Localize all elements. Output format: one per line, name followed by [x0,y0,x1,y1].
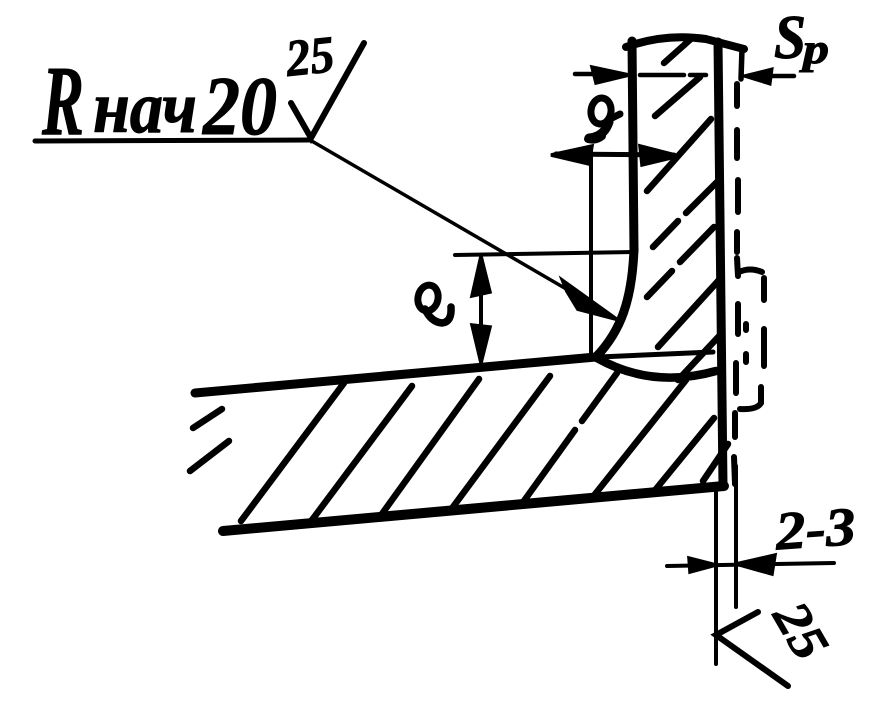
svg-text:25: 25 [282,26,337,88]
wire: fillet curve R [596,249,634,357]
wire: plate bottom edge [223,486,724,531]
wire: e dimension arrow [479,258,483,361]
wire: g dimension line [556,154,674,155]
svg-text:2-3: 2-3 [772,496,857,562]
wire: leader underline for R nach 20 [35,140,310,141]
node: e up arrowhead [472,256,490,296]
svg-text:S: S [774,4,806,72]
wire: g extension line [589,148,593,356]
wire: plate top edge [195,357,596,393]
node: Sp right arrow [744,69,772,84]
wire: e extension line [455,252,634,255]
label g (hand-drawn) [588,97,620,140]
node: g right arrowhead [640,146,679,165]
wire: Sp dimension line dashes [575,74,794,76]
wire: column top edge [626,37,744,49]
wire: 2-3 extension line right [734,466,738,607]
wire: column top right drop [741,49,742,79]
plate hatching [190,373,728,524]
node: 2-3 right arrow [736,555,775,574]
wire: lens lower curve [597,358,716,378]
label e (hand-drawn script ell) [416,283,452,323]
svg-text:20: 20 [201,60,277,153]
wire: dashed original surface line [734,84,764,484]
svg-text:нач: нач [93,67,197,149]
svg-text:25: 25 [761,592,839,670]
node B: roughness check top [291,43,364,138]
column hatching [647,38,722,380]
svg-text:R: R [41,45,84,156]
wire: lens upper line [599,352,713,357]
node: roughness check bottom [716,612,788,686]
node A: leader arrowhead [563,281,616,319]
node: e down arrowhead [472,325,490,363]
node: g left arrowhead [551,146,592,164]
wire: 2-3 dimension line [667,563,834,566]
wire: leader line to fillet [310,140,568,290]
node: 2-3 left arrow [689,558,716,572]
wire: column left edge [632,41,634,251]
node: Sp left arrow [592,67,629,83]
wire: column right edge [718,42,723,486]
svg-text:p: p [799,27,829,73]
wire: 2-3 extension line left [714,487,718,664]
